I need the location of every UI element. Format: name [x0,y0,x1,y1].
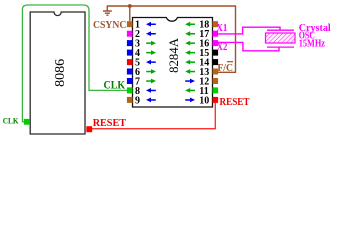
svg-text:9: 9 [135,95,140,106]
crystal X1 bottom plate [267,46,294,48]
wire CLK net (8284A pin8 to 8086 CLK, routed around top of 8086) [22,5,127,122]
svg-text:X2: X2 [217,41,228,53]
pin 17 arrow (green left) [185,31,195,36]
label Crystal OSC 15MHz [299,23,331,50]
pin 13 arrow (green left) [185,69,195,74]
svg-text:RESET: RESET [220,97,250,108]
svg-text:10: 10 [199,95,209,106]
clock generator U1 8284A body [133,18,213,108]
pin 4 box [127,50,133,56]
pin 18 box [213,21,219,27]
pin 6 arrow (green right) [146,69,156,74]
svg-text:CLK: CLK [3,116,19,126]
pin 10 arrow (blue right) [185,98,195,103]
wire ground / CSYNC / F-C net (brown) [107,6,235,72]
pin 4 arrow (green right) [146,50,156,55]
junction dot on CSYNC net [128,4,132,8]
pin 8 arrow (blue left) [146,88,156,93]
pin 12 arrow (blue right) [185,79,195,84]
pin 10 box [213,97,219,103]
pin 6 box [127,69,133,75]
pin 17 box [213,31,219,37]
pin 15 arrow (green left) [185,50,195,55]
svg-text:CLK: CLK [104,79,126,91]
pin 1 box [127,21,133,27]
wire CSYNC drop to pin 1 [129,6,131,21]
pin 9 arrow (blue left) [146,98,156,103]
svg-text:8284A: 8284A [167,37,181,73]
pin 14 arrow (green left) [185,60,195,65]
svg-text:X1: X1 [216,22,227,34]
svg-text:15MHz: 15MHz [299,39,326,50]
pin 1 arrow (blue left) [146,22,156,27]
svg-text:RESET: RESET [93,118,126,129]
pin 9 box [127,97,133,103]
crystal X1 top plate [267,29,294,31]
pin 14 box [213,59,219,65]
pin numbers right [199,20,209,107]
terminal box CLK on 8086 [24,119,29,125]
terminal box RESET on 8086 [86,126,92,132]
ground symbol [103,11,112,15]
svg-text:CSYNC: CSYNC [93,20,126,31]
pin 5 arrow (blue left) [146,60,156,65]
pin 5 box [127,59,133,65]
pin numbers left [135,20,140,107]
pin 2 arrow (blue left) [146,31,156,36]
pin 11 arrow (green left) [185,88,195,93]
pin 13 box [213,69,219,75]
wire X1 net [218,27,280,34]
svg-text:8086: 8086 [53,59,68,87]
pin 15 box [213,50,219,56]
pin 3 box [127,40,133,46]
pin 16 box [213,40,219,46]
pin 18 arrow (green left) [185,22,195,27]
pin 7 arrow (green right) [146,79,156,84]
wire X2 net [218,42,279,50]
processor U2 8086 body [30,12,85,134]
pin 7 box [127,78,133,84]
wire RESET net (8284A pin10 to 8086 RESET) [92,103,215,129]
pin 8 box [127,87,133,93]
pin 3 arrow (green right) [146,41,156,46]
pin 11 box [213,87,219,93]
pin 2 box [127,31,133,37]
pin 12 box [213,78,219,84]
pin 16 arrow (green left) [185,41,195,46]
svg-text:F/C: F/C [217,63,233,74]
